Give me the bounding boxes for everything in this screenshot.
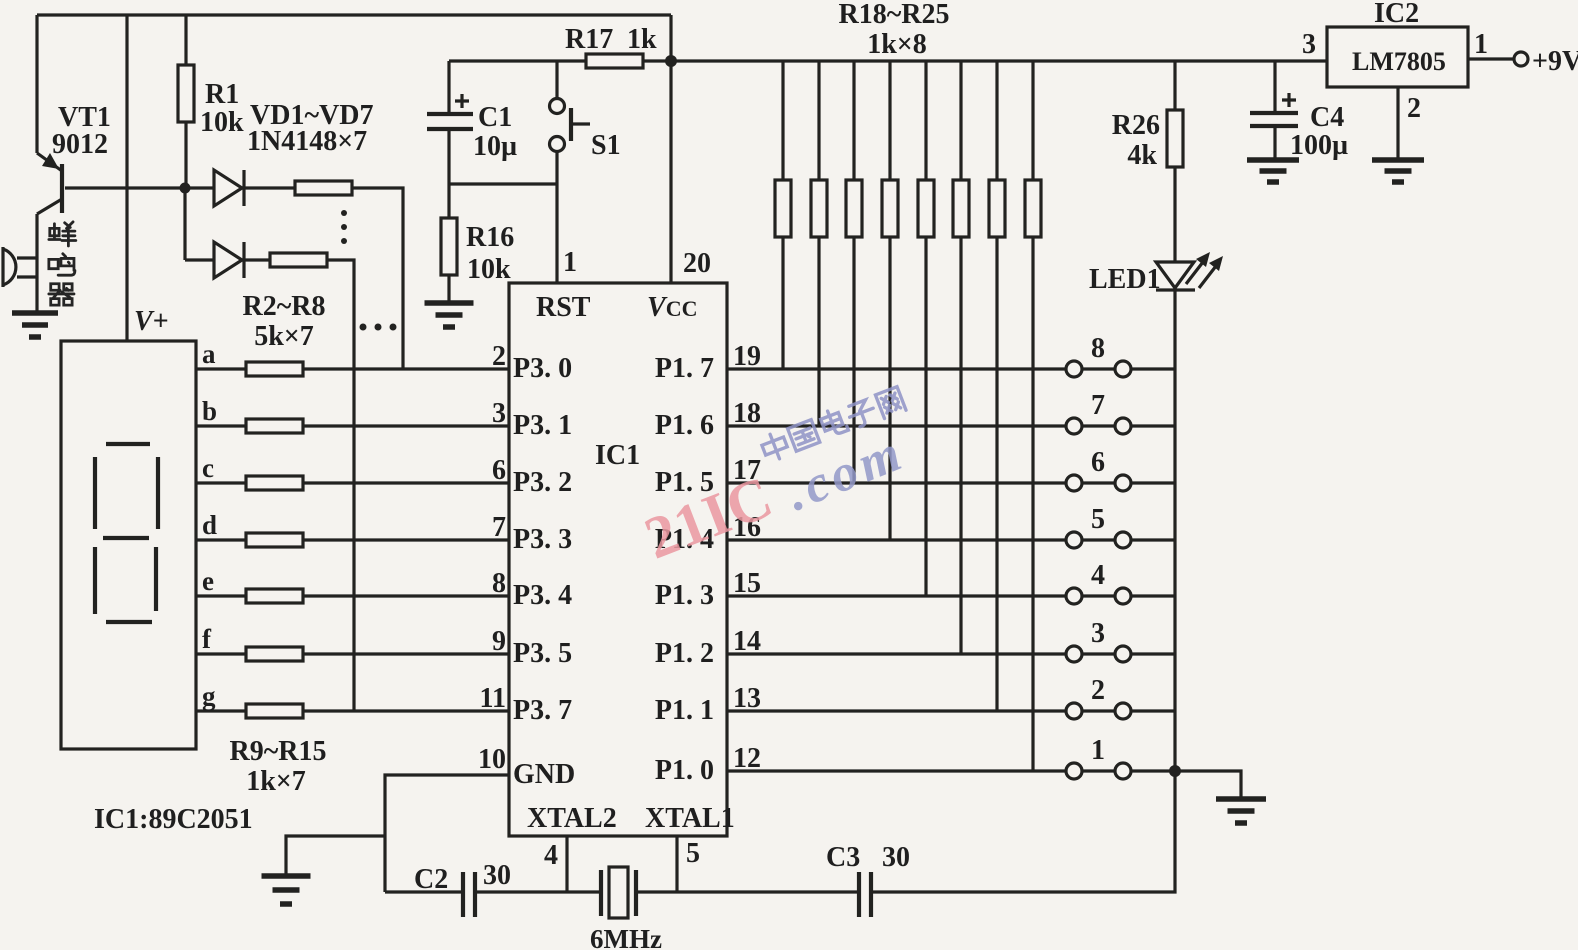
svg-text:P3. 1: P3. 1 xyxy=(513,410,572,441)
ground (C4) xyxy=(1247,160,1299,182)
svg-text:IC1: IC1 xyxy=(595,440,640,471)
svg-text:P1. 6: P1. 6 xyxy=(655,410,714,441)
wire segment-a row xyxy=(196,367,509,370)
wire ground branch xyxy=(286,836,385,876)
pushbutton S1 xyxy=(550,61,591,184)
resistor R25 (1k) pull-up column xyxy=(1031,61,1034,771)
svg-text:10: 10 xyxy=(478,744,506,775)
wire segment-c row xyxy=(196,481,509,484)
ground (R16) xyxy=(425,303,474,327)
svg-text:100µ: 100µ xyxy=(1290,130,1348,161)
svg-text:V+: V+ xyxy=(134,306,169,337)
svg-text:2: 2 xyxy=(492,341,506,372)
transistor VT1 9012 PNP xyxy=(37,153,62,258)
svg-text:P1. 1: P1. 1 xyxy=(655,695,714,726)
wire top rail corner drop xyxy=(669,15,672,61)
switch S7 (key 7) xyxy=(1066,418,1175,434)
svg-text:C3: C3 xyxy=(826,842,860,873)
svg-text:4: 4 xyxy=(544,840,558,871)
resistor R19 (1k) pull-up column xyxy=(817,61,820,426)
wire VD1 row to segment-a row xyxy=(352,188,403,369)
svg-text:IC2: IC2 xyxy=(1374,0,1419,29)
wire P1.3 row to switch xyxy=(727,594,1066,597)
switch S6 (key 6) xyxy=(1066,475,1175,491)
svg-text:2: 2 xyxy=(1091,675,1105,706)
svg-text:9: 9 xyxy=(492,626,506,657)
7-segment display module box xyxy=(61,341,196,749)
wire P1.6 row to switch xyxy=(727,424,1066,427)
svg-text:3: 3 xyxy=(1302,29,1316,60)
wire P1.7 row to switch xyxy=(727,367,1066,370)
resistor R22 (1k) pull-up column xyxy=(924,61,927,596)
svg-text:10µ: 10µ xyxy=(473,131,517,162)
svg-text:XTAL2: XTAL2 xyxy=(527,803,617,834)
svg-text:f: f xyxy=(202,624,212,654)
svg-text:8: 8 xyxy=(492,568,506,599)
ground (buzzer) xyxy=(12,313,58,337)
capacitor C4 100µ (electrolytic) xyxy=(1250,61,1298,160)
svg-text:LM7805: LM7805 xyxy=(1352,47,1446,76)
resistor R11 (1k) segment c xyxy=(246,476,303,490)
svg-text:d: d xyxy=(202,510,217,540)
svg-text:15: 15 xyxy=(733,568,761,599)
svg-text:P3. 2: P3. 2 xyxy=(513,467,572,498)
regulator IC2 LM7805 box xyxy=(1327,27,1468,87)
capacitor C1 10µ (electrolytic) xyxy=(427,61,473,184)
svg-text:30: 30 xyxy=(882,842,910,873)
svg-text:7: 7 xyxy=(1091,390,1105,421)
resistor R17 1k (horizontal) xyxy=(586,54,643,68)
svg-text:C1: C1 xyxy=(478,102,512,133)
node Vcc junction xyxy=(665,55,677,67)
svg-text:7: 7 xyxy=(492,512,506,543)
svg-text:11: 11 xyxy=(480,683,506,714)
svg-text:+9V: +9V xyxy=(1532,46,1578,77)
svg-text:C4: C4 xyxy=(1310,102,1344,133)
svg-text:P1. 2: P1. 2 xyxy=(655,638,714,669)
svg-text:c: c xyxy=(202,453,214,483)
switch S4 (key 4) xyxy=(1066,588,1175,604)
7-segment digit segments xyxy=(95,444,158,622)
terminal +9V input xyxy=(1514,52,1528,66)
resistor R16 10k (vertical) xyxy=(447,184,450,303)
svg-text:3: 3 xyxy=(1091,618,1105,649)
resistor R21 (1k) pull-up column xyxy=(888,61,891,540)
wire P1.4 row to switch xyxy=(727,538,1066,541)
wire GND pin 10 to crystal row xyxy=(385,775,509,892)
label 蜂鸣器 (buzzer) hand-drawn glyphs xyxy=(49,222,76,246)
resistor R26 4k (vertical) xyxy=(1173,61,1176,262)
svg-text:1k: 1k xyxy=(627,24,657,55)
resistor R14 (1k) segment f xyxy=(246,647,303,661)
svg-text:1k×8: 1k×8 xyxy=(867,29,927,60)
svg-text:30: 30 xyxy=(483,860,511,891)
switch S8 (key 8) xyxy=(1066,361,1175,377)
svg-text:13: 13 xyxy=(733,683,761,714)
svg-text:P1. 7: P1. 7 xyxy=(655,353,714,384)
ellipsis dots between diode rows xyxy=(341,210,347,244)
ground (switch common) xyxy=(1216,799,1266,823)
crystal X1 6MHz xyxy=(601,867,636,918)
resistor R18 (1k) pull-up column xyxy=(781,61,784,369)
svg-text:C2: C2 xyxy=(414,864,448,895)
svg-text:IC1:89C2051: IC1:89C2051 xyxy=(94,804,253,835)
svg-text:R1: R1 xyxy=(205,79,239,110)
wire switch common bus xyxy=(1173,369,1176,771)
svg-text:1: 1 xyxy=(1474,29,1488,60)
wire to right ground xyxy=(1175,771,1241,799)
buzzer (speaker symbol) xyxy=(3,247,37,313)
resistor R8 (5k) in diode row 2 xyxy=(270,253,327,267)
wire crystal to C3 xyxy=(636,890,859,893)
svg-text:6: 6 xyxy=(492,455,506,486)
svg-text:3: 3 xyxy=(492,398,506,429)
svg-text:19: 19 xyxy=(733,341,761,372)
wire P1.2 row to switch xyxy=(727,652,1066,655)
resistor R23 (1k) pull-up column xyxy=(959,61,962,654)
resistor R12 (1k) segment d xyxy=(246,533,303,547)
svg-text:P3. 3: P3. 3 xyxy=(513,524,572,555)
watermark 21IC.com (中国电子网) xyxy=(636,385,913,572)
svg-text:P1. 0: P1. 0 xyxy=(655,755,714,786)
node junction base/R1/diodes xyxy=(180,183,191,194)
svg-text:1k×7: 1k×7 xyxy=(246,766,306,797)
svg-text:P3. 4: P3. 4 xyxy=(513,580,572,611)
svg-text:8: 8 xyxy=(1091,333,1105,364)
wire V+ riser to display module xyxy=(125,15,128,341)
svg-text:4: 4 xyxy=(1091,560,1105,591)
svg-text:P3. 7: P3. 7 xyxy=(513,695,572,726)
wire base row xyxy=(65,186,184,189)
resistor R10 (1k) segment b xyxy=(246,419,303,433)
switch S2 (key 2) xyxy=(1066,703,1175,719)
svg-text:6MHz: 6MHz xyxy=(590,924,662,950)
LED LED1 xyxy=(1156,252,1223,369)
resistor R20 (1k) pull-up column xyxy=(852,61,855,483)
op-amp/IC U1: IC1 89C2051 box xyxy=(509,283,727,836)
svg-text:R2~R8: R2~R8 xyxy=(242,291,325,322)
switch S3 (key 3) xyxy=(1066,646,1175,662)
wire IC2 output xyxy=(1468,57,1514,60)
svg-text:P1. 3: P1. 3 xyxy=(655,580,714,611)
svg-text:5: 5 xyxy=(1091,504,1105,535)
wire VD7 row to segment-g row xyxy=(327,260,354,711)
svg-text:1: 1 xyxy=(1091,735,1105,766)
resistor R1 10k (vertical) xyxy=(184,15,187,188)
svg-text:XTAL1: XTAL1 xyxy=(645,803,735,834)
svg-text:LED1: LED1 xyxy=(1089,264,1161,295)
wire segment-f row xyxy=(196,652,509,655)
wire RST pin riser xyxy=(555,184,558,283)
svg-text:R17: R17 xyxy=(565,24,613,55)
svg-text:S1: S1 xyxy=(591,130,621,161)
wire C1/R16/S1 junction row xyxy=(449,182,557,185)
wire collector riser xyxy=(35,15,38,153)
svg-text:5: 5 xyxy=(686,838,700,869)
svg-text:5k×7: 5k×7 xyxy=(254,321,314,352)
svg-text:R16: R16 xyxy=(466,222,514,253)
node switch bus / ground junction xyxy=(1169,765,1181,777)
wire top V+ rail xyxy=(37,13,671,16)
resistor R15 (1k) segment g xyxy=(246,704,303,718)
svg-text:18: 18 xyxy=(733,398,761,429)
svg-text:20: 20 xyxy=(683,248,711,279)
svg-text:4k: 4k xyxy=(1127,140,1157,171)
svg-text:12: 12 xyxy=(733,743,761,774)
wire XTAL2 pin 4 riser xyxy=(565,836,568,892)
resistor R2 (5k) in diode row 1 xyxy=(295,181,352,195)
ground (IC2) xyxy=(1372,160,1424,182)
svg-text:b: b xyxy=(202,396,217,426)
diode VD1 1N4148 xyxy=(185,170,295,206)
svg-text:g: g xyxy=(202,681,216,711)
svg-text:RST: RST xyxy=(536,292,591,323)
resistor R9 (1k) segment a xyxy=(246,362,303,376)
svg-text:10k: 10k xyxy=(467,254,511,285)
svg-text:VCC: VCC xyxy=(647,292,697,323)
wire IC2 pin 2 to ground xyxy=(1396,87,1399,160)
svg-text:1: 1 xyxy=(563,247,577,278)
wire crystal row left xyxy=(385,890,463,893)
ground (IC1 GND) xyxy=(262,876,311,904)
svg-text:P3. 5: P3. 5 xyxy=(513,638,572,669)
+5V bus wire to IC2 xyxy=(671,59,1327,62)
wire to diode row 2 xyxy=(183,188,186,260)
svg-text:1N4148×7: 1N4148×7 xyxy=(247,126,367,157)
wire P1.0 row to switch xyxy=(727,769,1066,772)
svg-text:P3. 0: P3. 0 xyxy=(513,353,572,384)
capacitor C3 30 xyxy=(859,872,871,917)
wire P1.5 row to switch xyxy=(727,481,1066,484)
svg-text:R26: R26 xyxy=(1112,110,1160,141)
wire C2 to crystal xyxy=(475,890,601,893)
wire reset top row xyxy=(449,59,586,62)
svg-text:6: 6 xyxy=(1091,447,1105,478)
wire XTAL1 pin 5 riser xyxy=(675,836,678,892)
wire P1.1 row to switch xyxy=(727,709,1066,712)
svg-text:14: 14 xyxy=(733,626,761,657)
svg-text:GND: GND xyxy=(513,759,575,790)
svg-text:R9~R15: R9~R15 xyxy=(229,736,326,767)
capacitor C2 30 xyxy=(463,872,475,917)
resistor R13 (1k) segment e xyxy=(246,589,303,603)
svg-text:10k: 10k xyxy=(200,107,244,138)
switch S1 (key 1) xyxy=(1066,763,1175,779)
diode VD7 1N4148 xyxy=(185,242,270,278)
ellipsis dots for repeated columns xyxy=(360,324,397,331)
wire Vcc pin riser xyxy=(669,61,672,283)
svg-text:a: a xyxy=(202,339,216,369)
wire segment-b row xyxy=(196,424,509,427)
wire segment-e row xyxy=(196,594,509,597)
switch S5 (key 5) xyxy=(1066,532,1175,548)
resistor R24 (1k) pull-up column xyxy=(995,61,998,711)
svg-text:2: 2 xyxy=(1407,93,1421,124)
svg-text:e: e xyxy=(202,566,214,596)
svg-text:R18~R25: R18~R25 xyxy=(838,0,949,30)
wire segment-d row xyxy=(196,538,509,541)
wire R17 to Vcc node xyxy=(643,59,672,62)
svg-text:9012: 9012 xyxy=(52,129,108,160)
wire segment-g row xyxy=(196,709,509,712)
wire C3 to switch bus corner xyxy=(871,771,1175,892)
